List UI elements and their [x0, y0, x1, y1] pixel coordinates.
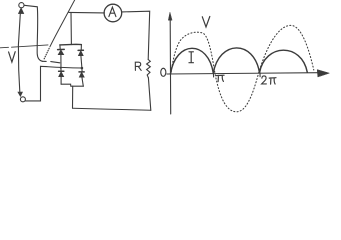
label V (source voltage) — [9, 52, 16, 62]
wire segment continued — [51, 62, 60, 63]
wire ammeter to R top — [122, 11, 150, 59]
diode D2 (lower left) cathode bar — [59, 70, 64, 72]
diode D3 (upper right) cathode bar — [78, 49, 83, 51]
stray crease line B dotted tail — [44, 47, 50, 59]
AC source line between terminals — [18, 14, 20, 92]
x-axis arrowhead — [317, 70, 329, 77]
label 2 (of 2pi) — [262, 76, 267, 84]
junction dot right branch midpoint — [81, 67, 84, 70]
bridge bottom rail — [61, 84, 83, 86]
diode D1 triangle — [58, 50, 64, 55]
diode D4 (lower right) cathode bar — [79, 71, 84, 73]
label R (load resistor) — [135, 62, 141, 70]
wire bridge top to ammeter — [69, 11, 105, 14]
left branch bottom segment — [60, 77, 62, 85]
junction dot on left branch crossing — [60, 67, 62, 69]
tick at pi — [212, 73, 214, 77]
arrow on terminal T1 — [18, 8, 23, 14]
diode D1 (upper left) cathode bar — [58, 48, 65, 50]
bridge top rail — [60, 43, 82, 46]
label I (graph, serif) — [189, 52, 193, 63]
label pi (at first cusp) — [216, 75, 224, 81]
wire segment to left branch midpoint (with gap) — [43, 60, 47, 62]
bridge top output stub up to ammeter wire — [70, 13, 72, 45]
stray crease line B solid — [50, 0, 75, 47]
y-axis arrowhead — [168, 12, 172, 20]
label 0 (origin) — [161, 68, 166, 76]
terminal T1 (top AC input) — [19, 3, 24, 8]
label A (ammeter) — [109, 7, 116, 16]
dashed curve V: input sine — [171, 25, 314, 111]
label pi (of 2pi) — [269, 78, 276, 84]
arrow on terminal T2 — [18, 92, 23, 96]
graph x-axis — [167, 73, 319, 74]
resistor R zigzag — [147, 60, 151, 78]
wire T2 right then up then to bridge right branch midpoint — [25, 66, 82, 101]
stray crease line A — [0, 46, 9, 49]
label V (graph) — [202, 17, 210, 28]
bridge left branch top segment — [59, 45, 61, 50]
terminal T2 (bottom AC input) — [20, 97, 25, 102]
right branch middle segment — [81, 56, 82, 72]
diode D2 triangle — [59, 72, 64, 77]
graph y-axis — [169, 20, 172, 115]
ammeter A circle — [104, 4, 122, 22]
bridge right branch top segment — [80, 45, 82, 51]
tick at 2pi — [259, 73, 261, 77]
right branch bottom segment — [82, 77, 83, 86]
diode D3 triangle — [78, 51, 83, 56]
bottom return wire — [73, 108, 151, 110]
diode D4 triangle — [79, 72, 84, 77]
left branch middle segment — [60, 55, 62, 71]
wire T1 right then down to bridge left branch midpoint — [24, 5, 42, 61]
solid curve I: rectified humps — [171, 48, 308, 74]
bridge bottom stub down — [72, 86, 74, 108]
wire R bottom down — [148, 78, 150, 111]
